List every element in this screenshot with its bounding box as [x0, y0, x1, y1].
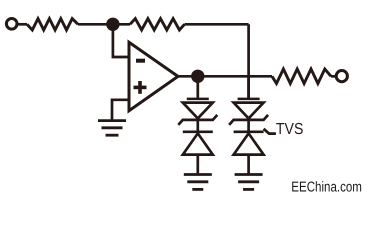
TVS label leader [264, 129, 276, 134]
wire R2 to feedback corner [185, 23, 249, 26]
wire non-inverting input to ground [112, 100, 129, 121]
wire D2a to D2b [247, 120, 250, 132]
ground D1 [184, 175, 212, 190]
resistor R2 feedback [130, 19, 185, 30]
diode D1a zener cathode bar [178, 115, 217, 125]
wire node A to inverting input [113, 24, 129, 57]
diode D1a triangle down [183, 103, 213, 119]
wire input to R1 [17, 23, 27, 26]
wire D1a to D1b [196, 120, 199, 132]
wire op-amp output [178, 75, 198, 78]
wire node A to R2 [113, 23, 130, 26]
diode D1b cathode bar [183, 130, 213, 133]
TVS D2a zener cathode bar [229, 115, 268, 125]
TVS D2 anode bar [238, 98, 260, 101]
output terminal OUT [336, 71, 347, 82]
ground D2 [235, 175, 263, 190]
resistor R3 [272, 69, 331, 84]
wire feedback into TVS D2 [247, 76, 250, 99]
wire output rail [198, 75, 272, 78]
input terminal IN [6, 19, 17, 30]
op-amp plus label [134, 81, 147, 94]
wire node B down to clamp D1 [196, 76, 199, 99]
TVS D2a triangle down [234, 103, 264, 119]
TVS D2b triangle up [234, 133, 264, 154]
diode pair D1 anode bar [187, 98, 209, 101]
diode D1b triangle up [183, 133, 213, 154]
resistor R1 [27, 19, 78, 30]
op-amp U1 [129, 42, 178, 110]
TVS D2b cathode bar [234, 130, 264, 133]
svg-text:TVS: TVS [276, 121, 304, 138]
wire R3 to output terminal [331, 75, 337, 78]
node A junction dot [106, 18, 119, 31]
ground op-amp [98, 121, 126, 136]
op-amp minus label [136, 59, 145, 63]
node B output junction dot [191, 70, 204, 83]
wire R1 to node A [78, 23, 113, 26]
svg-text:EEChina.com: EEChina.com [291, 180, 362, 196]
wire D1b to ground [196, 155, 199, 175]
wire feedback vertical [247, 24, 250, 99]
wire D2b to ground [247, 155, 250, 175]
